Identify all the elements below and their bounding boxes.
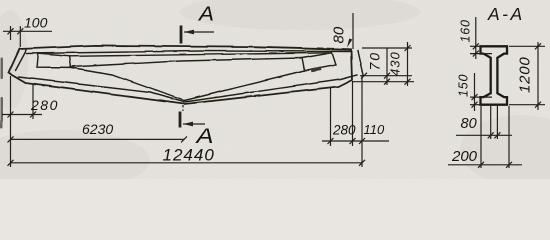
dim 280/110 right bbox=[322, 140, 389, 142]
paper background bbox=[0, 0, 550, 179]
dim 12440 bbox=[11, 162, 363, 164]
bottom chamfer line B3 right bbox=[184, 71, 304, 101]
quadR inner plate bbox=[310, 67, 321, 72]
svg-text:430: 430 bbox=[388, 51, 403, 76]
svg-text:110: 110 bbox=[364, 122, 385, 137]
bottom chamfer line B3 left bbox=[71, 67, 185, 100]
svg-text:80: 80 bbox=[331, 26, 348, 43]
svg-text:150: 150 bbox=[457, 74, 471, 97]
dim 6230 bbox=[11, 138, 185, 140]
svg-text:A-A: A-A bbox=[487, 4, 525, 24]
svg-text:280: 280 bbox=[332, 123, 356, 138]
svg-text:80: 80 bbox=[461, 116, 477, 132]
section mark A top bbox=[181, 26, 214, 44]
left trapezoid quadL bbox=[37, 53, 71, 67]
dim 430 line bbox=[407, 42, 409, 86]
svg-text:1200: 1200 bbox=[517, 56, 534, 93]
svg-text:280: 280 bbox=[30, 97, 59, 113]
dim 70 line bbox=[386, 48, 388, 85]
right trapezoid quadR bbox=[302, 52, 336, 70]
dim 200 section bbox=[448, 164, 522, 166]
svg-text:A: A bbox=[197, 2, 214, 25]
svg-text:12440: 12440 bbox=[163, 146, 215, 165]
dim 100 lines bbox=[3, 30, 52, 32]
dim 160 top line bbox=[475, 17, 477, 59]
dim 1200 line bbox=[537, 42, 539, 110]
section mark A bottom bbox=[180, 105, 205, 128]
right ext lines bbox=[362, 47, 412, 49]
svg-text:100: 100 bbox=[24, 14, 48, 30]
svg-text:200: 200 bbox=[451, 148, 478, 165]
dim 80 top right bbox=[352, 13, 354, 49]
scan smudge left edge bbox=[0, 57, 3, 128]
long web chamfer line L4 bbox=[70, 58, 302, 67]
dim 80 section bbox=[456, 134, 512, 136]
beam outline bbox=[8, 45, 352, 103]
dim 280 left bbox=[2, 114, 42, 116]
svg-text:70: 70 bbox=[367, 51, 383, 71]
top chamfer line L3 bbox=[69, 52, 332, 56]
section ext lines left bbox=[470, 45, 482, 47]
right end inner face line bbox=[358, 51, 364, 76]
top flange bottom line L2 bbox=[26, 51, 350, 54]
left end inner face line bbox=[15, 50, 26, 71]
svg-text:160: 160 bbox=[459, 19, 473, 42]
section I-profile bbox=[481, 46, 508, 104]
section lower ext verticals bbox=[490, 106, 492, 139]
svg-text:6230: 6230 bbox=[82, 121, 113, 137]
dim 150 bottom line bbox=[474, 73, 476, 111]
bottom flange top line B2 bbox=[18, 75, 357, 102]
